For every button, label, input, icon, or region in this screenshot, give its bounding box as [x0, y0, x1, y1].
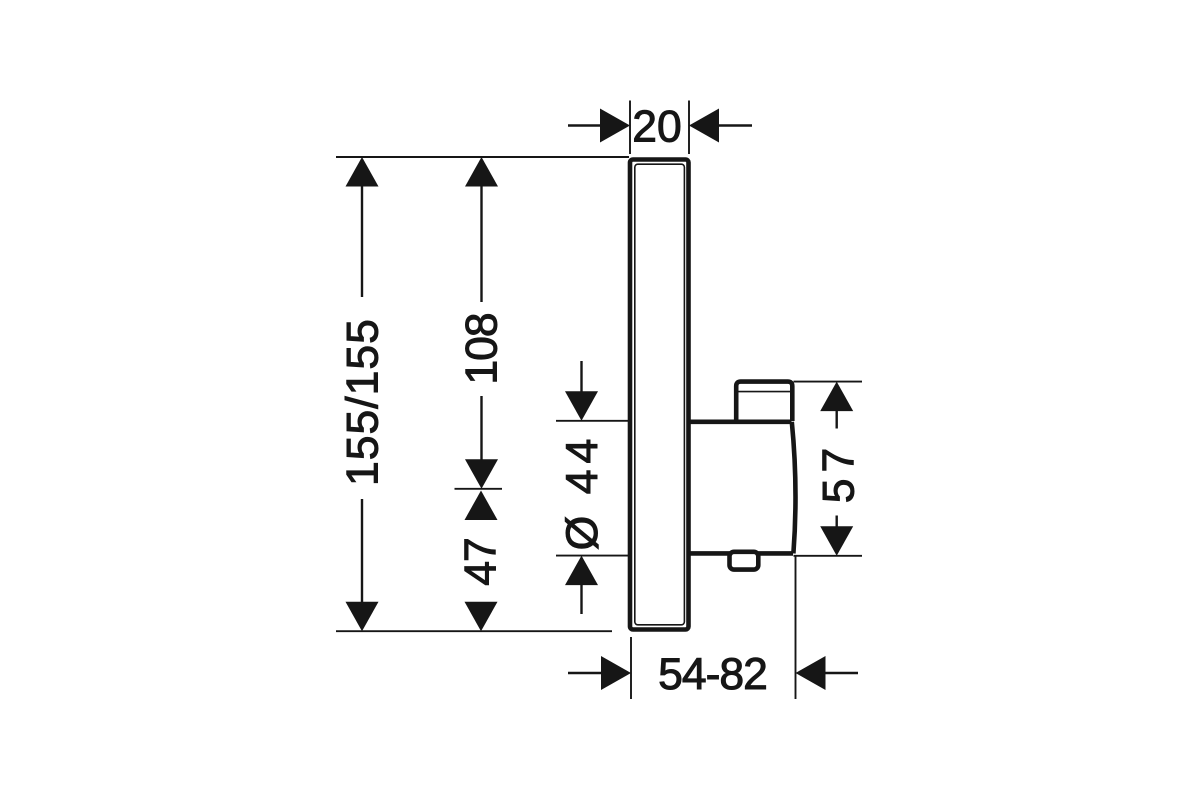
svg-text:108: 108	[458, 313, 507, 384]
dim 54-82 leader left	[568, 672, 602, 674]
extension line 20 left	[629, 101, 631, 155]
svg-text:20: 20	[632, 103, 682, 152]
svg-text:57: 57	[815, 442, 864, 504]
svg-text:44: 44	[558, 433, 607, 495]
dim 57 arrow top	[820, 382, 853, 412]
faceplate outer profile	[630, 160, 689, 630]
faceplate front face inner line	[635, 164, 685, 625]
dim 44 stub top	[580, 361, 582, 392]
knob face line	[739, 391, 791, 393]
dim 57 stub lower	[836, 516, 838, 528]
dim 155/155 arrow top	[346, 157, 379, 187]
dim 54-82 arrow left	[601, 656, 631, 690]
dim 54-82 leader right	[826, 672, 859, 674]
dim 57 arrow bottom	[820, 526, 853, 556]
extension line knob top right	[794, 381, 863, 383]
dim 44 arrow top	[565, 391, 598, 421]
svg-text:155/155: 155/155	[339, 318, 388, 486]
dim 155/155 line lower	[361, 499, 363, 604]
dim 155/155 arrow bottom	[346, 602, 379, 632]
svg-text:47: 47	[457, 538, 506, 586]
dim 57 stub upper	[836, 410, 838, 429]
dim 47 arrow bottom	[465, 602, 498, 632]
dim 54-82 arrow right	[796, 656, 826, 690]
extension line plate top	[336, 156, 629, 158]
extension line body bottom right	[794, 555, 863, 557]
handle knob	[736, 382, 792, 423]
extension line valve centre tick	[455, 488, 503, 490]
mounting tab	[730, 552, 759, 570]
dim 155/155 line upper	[361, 186, 363, 298]
extension line 20 right	[688, 101, 690, 155]
valve body top line	[688, 419, 792, 424]
extension line 54-82 left	[630, 637, 632, 699]
dim 20 leader right	[719, 124, 752, 126]
valve body right edge	[792, 422, 796, 554]
dim 108 line upper	[480, 186, 482, 303]
extension line sleeve top left	[556, 420, 628, 422]
dim 108 line lower	[480, 396, 482, 462]
dim 20 leader left	[568, 124, 600, 126]
dim 108 arrow top	[465, 157, 498, 187]
extension line plate bottom	[336, 630, 612, 632]
dim 44 stub bottom	[580, 584, 582, 614]
dim 20 arrow left	[600, 109, 630, 143]
dim 47 arrow top	[465, 491, 498, 521]
valve body bottom line	[688, 551, 793, 556]
svg-text:54-82: 54-82	[658, 650, 767, 699]
dim 108 arrow bottom	[465, 459, 498, 489]
dim 44 arrow bottom	[565, 556, 598, 586]
extension line 54-82 right	[795, 556, 797, 699]
svg-text:Ø: Ø	[558, 516, 607, 551]
extension line sleeve bottom left	[556, 555, 628, 557]
dim 20 arrow right	[689, 109, 719, 143]
